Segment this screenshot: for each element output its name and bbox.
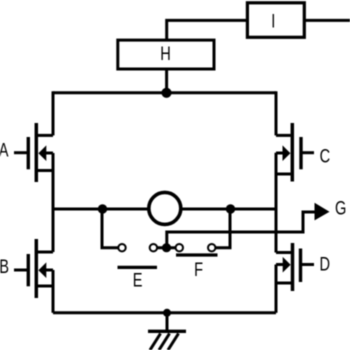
wire top rail xyxy=(53,91,276,94)
wire middle (bridge midpoints) xyxy=(53,208,276,211)
svg-text:G: G xyxy=(335,197,346,218)
wire I output xyxy=(304,19,350,22)
transistor B xyxy=(14,239,53,298)
svg-text:D: D xyxy=(320,253,331,274)
wire switch common xyxy=(157,246,176,249)
block I xyxy=(247,3,304,38)
svg-text:I: I xyxy=(271,10,275,31)
ground xyxy=(148,309,186,350)
arrowhead G xyxy=(315,203,330,221)
wire left rail upper (A drain) xyxy=(52,91,55,135)
contact F left xyxy=(176,244,183,251)
contact E left xyxy=(118,244,125,251)
switch E bar xyxy=(118,266,158,269)
node switch common xyxy=(162,243,171,252)
wire H to I xyxy=(167,20,247,40)
wire right rail middle (C source to D drain) xyxy=(275,153,278,253)
wire right rail upper (C drain) xyxy=(275,91,278,135)
svg-text:H: H xyxy=(160,43,171,64)
wire right rail lower (D source to bottom rail) xyxy=(275,265,278,313)
wire bottom rail xyxy=(53,311,276,314)
contact F right xyxy=(208,244,215,251)
node left midpoint xyxy=(98,204,107,213)
transistor A xyxy=(14,123,53,182)
svg-text:C: C xyxy=(320,146,331,167)
wire left midpoint to switch E xyxy=(102,209,118,248)
block H xyxy=(118,40,214,69)
wire left rail lower (B source to bottom rail) xyxy=(52,270,55,313)
node top rail junction xyxy=(161,88,171,98)
motor M xyxy=(149,192,181,224)
contact E right xyxy=(150,244,157,251)
transistor D xyxy=(276,243,314,291)
wire left rail middle (A source to B drain) xyxy=(52,153,55,252)
wire common to G xyxy=(167,212,316,248)
wire H bottom xyxy=(165,69,168,93)
svg-text:B: B xyxy=(0,256,9,277)
node right midpoint xyxy=(226,204,235,213)
svg-text:A: A xyxy=(0,140,9,161)
switch F bar xyxy=(176,253,218,256)
transistor C xyxy=(276,123,314,182)
wire F right contact to right midpoint xyxy=(215,209,230,248)
svg-text:E: E xyxy=(133,270,143,291)
svg-text:F: F xyxy=(194,259,203,280)
